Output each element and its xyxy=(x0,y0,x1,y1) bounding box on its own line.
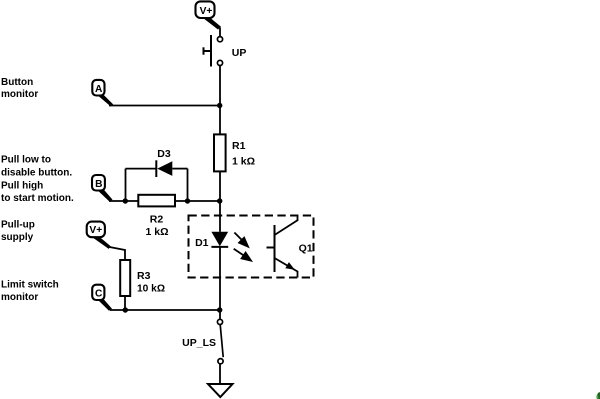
svg-text:V+: V+ xyxy=(200,6,213,17)
svg-text:V+: V+ xyxy=(89,225,102,236)
svg-text:Button: Button xyxy=(1,77,33,88)
svg-text:UP_LS: UP_LS xyxy=(182,337,216,349)
svg-text:Limit switch: Limit switch xyxy=(1,280,59,291)
svg-text:C: C xyxy=(95,289,103,300)
svg-text:R2: R2 xyxy=(150,214,164,226)
svg-text:Pull high: Pull high xyxy=(1,181,43,192)
svg-text:Pull low to: Pull low to xyxy=(1,155,51,166)
svg-text:10 kΩ: 10 kΩ xyxy=(137,283,165,294)
svg-text:monitor: monitor xyxy=(1,89,38,100)
svg-text:monitor: monitor xyxy=(1,292,38,303)
svg-text:1 kΩ: 1 kΩ xyxy=(232,156,255,168)
svg-text:A: A xyxy=(95,84,103,95)
svg-text:R1: R1 xyxy=(232,140,246,152)
svg-text:Q1: Q1 xyxy=(299,243,313,255)
svg-text:UP: UP xyxy=(232,47,247,59)
svg-text:Pull-up: Pull-up xyxy=(1,220,35,231)
svg-text:supply: supply xyxy=(1,232,34,243)
svg-text:D3: D3 xyxy=(157,148,171,160)
svg-text:R3: R3 xyxy=(137,270,151,282)
svg-text:D1: D1 xyxy=(195,237,209,249)
svg-text:disable button.: disable button. xyxy=(1,168,72,179)
svg-text:B: B xyxy=(95,179,102,190)
svg-text:1 kΩ: 1 kΩ xyxy=(145,226,168,238)
svg-text:to start motion.: to start motion. xyxy=(1,193,74,204)
